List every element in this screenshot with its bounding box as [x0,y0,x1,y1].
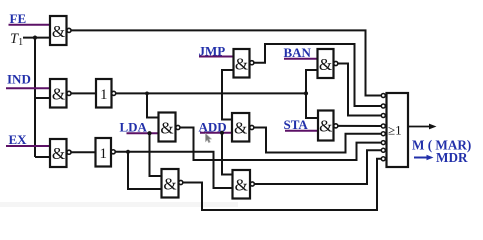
svg-text:&: & [234,119,247,138]
nand gate G4 (LDA.IND) [159,113,180,142]
wire T1 to G3 [35,156,50,158]
junction INV1 to BAN/STA [304,91,308,95]
wire OR output arrow [408,124,437,130]
input bubble 1 [381,94,385,98]
wire JMP input [199,56,234,58]
svg-text:&: & [52,144,65,163]
junction INV2 to G6 [126,150,130,154]
junction LDA branch [147,131,151,135]
wire to JMP bottom input and G5 top input [222,70,234,120]
nand gate G5 (ADD.IND) [232,113,254,142]
wire G10 output to OR input 4 [338,125,381,127]
wire T1 [23,37,50,39]
svg-text:≥1: ≥1 [388,123,402,138]
svg-text:EX: EX [9,132,28,147]
input bubble 8 [381,157,385,161]
svg-text:IND: IND [7,72,31,87]
wire LDA to G6 top input [150,133,162,176]
svg-text:STA: STA [284,117,309,132]
nand gate G9 (BAN.IND) [318,49,338,78]
inverter INV2 [96,138,116,167]
wire G2 to INV1 [71,92,96,94]
svg-text:BAN: BAN [284,45,312,60]
wire G4 output to OR input 6 [180,128,381,161]
svg-text:&: & [235,55,248,74]
svg-text:&: & [163,175,176,194]
wire IND input [6,87,50,89]
wire G9 output to OR input 3 [338,64,381,116]
wire T1 to G2 [35,97,50,99]
nand gate G2 (IND.T1) [50,79,71,108]
nand gate G7 (ADD.EX) [233,170,255,199]
svg-text:&: & [235,176,248,195]
wire INV1 output bus [116,92,306,94]
wire BAN input [284,58,318,60]
or gate U1 (>=1) [387,93,409,167]
wire EX input [6,145,50,147]
wire to G6 bottom input [128,152,162,189]
wire ADD input [200,132,232,134]
input bubble 5 [381,132,385,136]
input bubble 4 [381,124,385,128]
wire G1 output to OR input 1 [71,30,381,95]
nand gate G10 (STA.IND) [318,111,338,141]
wire G8 output to OR input 2 [254,44,381,106]
input bubble 7 [381,148,385,152]
svg-text:&: & [52,85,65,104]
wire G7 output to OR input 7 [255,150,381,184]
wire MDR arrow [414,155,434,160]
wire G3 to INV2 [71,151,95,153]
svg-text:FE: FE [10,11,27,26]
svg-text:1: 1 [100,146,108,162]
nand gate G8 (JMP.IND) [234,49,254,78]
wire LDA input [127,132,159,134]
wire to BAN bottom input and STA top input [306,70,318,118]
faint scan band [0,202,238,207]
nand gate G1 (FE.T1) [50,16,71,45]
wire ADD to G7 top input [222,133,233,175]
svg-text:&: & [160,119,173,138]
svg-text:&: & [319,117,332,136]
wire FE input [9,24,51,26]
junction INV1 to G4 [145,92,149,96]
wire INV2 output to G7 bottom input [116,152,233,188]
junction ADD branch [220,131,224,135]
svg-text:1: 1 [100,87,108,103]
mouse cursor [206,134,212,143]
svg-text:MDR: MDR [436,150,468,165]
inverter INV1 [96,79,116,108]
wire G6 output to OR input 8 [183,159,381,210]
input bubble 2 [381,104,385,108]
svg-text:&: & [52,22,65,41]
svg-text:&: & [319,55,332,74]
wire STA input [285,130,318,132]
wire to G4 top input [147,93,159,117]
input bubble 6 [381,141,385,145]
input bubble 3 [381,114,385,118]
wire G5 output to OR input 5 [254,128,381,153]
wire T1 vertical bus [34,38,36,157]
junction T1 branch [33,36,37,40]
nand gate G6 (LDA.EX) [162,169,183,198]
nand gate G3 (EX.T1) [50,139,71,167]
